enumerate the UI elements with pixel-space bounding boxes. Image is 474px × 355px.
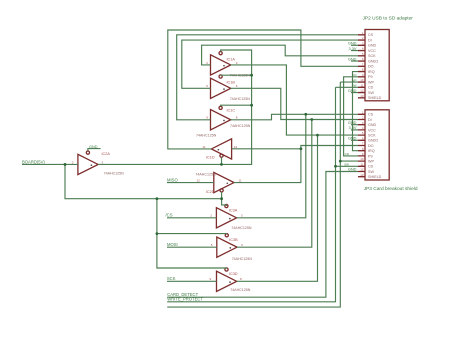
wire IC1A output to JP3 pin5 SCK (231, 65, 358, 135)
IC2D value label 74AHC125N (195, 172, 216, 176)
svg-text:IC2A: IC2A (102, 152, 111, 156)
svg-text:3: 3 (102, 160, 104, 164)
wire IC1B output to JP3 pin2 DI (231, 88, 358, 119)
svg-text:74AHC125N: 74AHC125N (196, 134, 217, 138)
svg-text:11: 11 (239, 179, 242, 183)
svg-text:/CS: /CS (166, 213, 173, 218)
IC3B value label 74AHC125N (232, 257, 253, 261)
wire net SCK: JP2 pin5 to IC1A input (202, 45, 358, 65)
IC1C value label 74AHC125N (230, 124, 251, 128)
svg-text:12: 12 (197, 179, 201, 183)
wire JP2 3.3V stub pin4 (351, 50, 358, 52)
net label GND JP3 pin3 (348, 120, 357, 125)
svg-text:SCK: SCK (368, 134, 376, 138)
wire JP2 pin11 stub (336, 86, 359, 88)
svg-text:GND2: GND2 (368, 139, 378, 143)
svg-text:IC1A: IC1A (227, 57, 236, 61)
net label MOSI (167, 242, 178, 247)
junction JP3 CS net (304, 113, 307, 116)
net label 3.3V JP3 pin4 (348, 125, 356, 130)
wire IC1C enable tie (221, 105, 252, 106)
svg-text:WP: WP (352, 78, 357, 82)
net label SW JP2 pin11 (352, 84, 357, 88)
net label 3.3V JP2 pin4 (348, 46, 356, 51)
wire JP2 pin10 stub (340, 81, 358, 83)
wire net WRITE_PROTECT to JP3 pin11 (167, 87, 358, 301)
svg-text:CD: CD (368, 86, 374, 90)
svg-text:DI: DI (368, 38, 372, 42)
wire IC1D enable tie (221, 157, 223, 164)
net label CARD_DETECT (167, 292, 198, 297)
IC1C gate label (227, 108, 236, 112)
IC1B value label 74AHC125N (230, 97, 251, 101)
svg-text:9: 9 (210, 277, 212, 281)
svg-text:WRITE_PROTECT: WRITE_PROTECT (167, 297, 203, 302)
wire IC3A output riser (237, 114, 306, 218)
IC1A value label 74AHC125N (230, 74, 251, 78)
wire JP2 GND stub pin3 (351, 44, 358, 46)
svg-text:8: 8 (236, 116, 238, 120)
net label CD JP3 pin9 (345, 152, 350, 156)
svg-text:GND: GND (89, 145, 98, 149)
wire IC1D input / IC2D output to JP3 pin7 DO (232, 146, 358, 183)
junction JP3 WP pin10 (339, 160, 342, 163)
JP3 pin numbers (360, 110, 364, 176)
wire net DI: JP2 pin2 to IC1B input (182, 40, 358, 88)
svg-text:2: 2 (206, 61, 208, 65)
IC1D value label 74AHC125N (196, 134, 217, 138)
svg-text:JP2 USB to SD adapter: JP2 USB to SD adapter (363, 16, 414, 22)
IC1D pin numbers 11,12 (203, 145, 238, 149)
IC3B gate label (229, 238, 238, 242)
net label /CS (166, 213, 173, 218)
svg-text:2: 2 (72, 160, 74, 164)
net label SCK (167, 276, 176, 281)
svg-text:GND: GND (348, 41, 357, 46)
wire JP3 3.3V stub pin4 (351, 129, 358, 131)
svg-text:CD: CD (368, 165, 374, 169)
IC2A gate label (102, 152, 111, 156)
svg-text:JP3 Card breakout shield: JP3 Card breakout shield (364, 186, 418, 192)
svg-text:BOARD(5V): BOARD(5V) (22, 159, 45, 164)
net label GND JP3 pin12 (348, 167, 357, 172)
svg-text:DO: DO (368, 144, 374, 148)
IC1B pin numbers 5,6 (206, 84, 237, 88)
buffer IC3A (216, 204, 236, 228)
wire IC3D output riser (237, 135, 318, 281)
connector JP2 body (365, 30, 389, 101)
IC1B gate label (227, 81, 236, 85)
IC2A pin numbers 2,3 (72, 160, 104, 164)
IC3D pin numbers 9,8 (210, 277, 243, 281)
svg-text:GND: GND (368, 123, 377, 127)
IC3A gate label (229, 209, 238, 213)
svg-text:IRQ: IRQ (368, 70, 375, 74)
junction JP3 DI net (310, 118, 313, 121)
IC3D gate label (229, 272, 238, 276)
buffer IC1D (left-pointing) (211, 139, 231, 159)
svg-text:74AHC125N: 74AHC125N (230, 288, 251, 292)
junction IC1B enable tie (250, 74, 253, 77)
IC1A pin numbers 2,3 (206, 61, 237, 65)
svg-text:6: 6 (236, 84, 238, 88)
svg-text:GND: GND (348, 167, 357, 172)
net label CD JP2 pin9 (352, 73, 357, 77)
junction IC2D enable tie (220, 197, 223, 200)
wire JP3 GND stub pin3 (351, 124, 358, 126)
JP3 pin names (368, 113, 382, 179)
wire IC2D enable tie (221, 192, 223, 199)
net label GND JP3 pin6 (348, 136, 357, 141)
IC3A pin numbers 2,3 (210, 214, 243, 218)
svg-text:VCC: VCC (368, 49, 376, 53)
svg-text:SW: SW (368, 170, 374, 174)
wire net MISO to IC2D input (167, 182, 214, 184)
connector JP2 pin stubs (358, 35, 365, 98)
junction on BOARD net at IC2A input (64, 163, 67, 166)
svg-text:74AHC125N: 74AHC125N (104, 172, 125, 176)
wire net SCK2 to IC3D input (167, 280, 217, 282)
wire IC3B output riser (237, 120, 312, 248)
IC1A gate label (227, 57, 236, 61)
svg-text:CS: CS (368, 33, 374, 37)
svg-text:IC1C: IC1C (227, 108, 236, 112)
JP3 title label (364, 186, 418, 192)
wire net BOARD input to IC2A (22, 163, 78, 165)
net label GND JP2 pin12 (348, 88, 357, 93)
svg-text:11: 11 (203, 145, 206, 149)
JP2 title label (363, 16, 414, 22)
svg-text:11: 11 (360, 162, 363, 166)
wire net CS: JP2 pin1 to IC1C input (177, 35, 358, 120)
IC3B pin numbers 5,6 (211, 243, 244, 247)
svg-text:IC1B: IC1B (227, 81, 236, 85)
connector JP3 body (365, 110, 389, 180)
svg-text:11: 11 (360, 83, 363, 87)
svg-text:74AHC125N: 74AHC125N (195, 172, 216, 176)
svg-text:MOSI: MOSI (167, 242, 178, 247)
wire BOARD branch to IC2/IC3 enable bus (65, 164, 222, 198)
svg-text:74AHC125N: 74AHC125N (232, 257, 253, 261)
svg-text:SHIELD: SHIELD (368, 96, 382, 100)
IC2D pin numbers 12,11 (197, 179, 242, 183)
svg-text:74AHC125N: 74AHC125N (230, 97, 251, 101)
svg-text:VCC: VCC (368, 128, 376, 132)
svg-text:13: 13 (360, 94, 364, 98)
wire JP2 pin8 to JP3 pin8 (353, 72, 359, 151)
svg-text:GND: GND (348, 136, 357, 141)
buffer IC1C (211, 106, 231, 130)
svg-text:8: 8 (240, 277, 242, 281)
wire JP3 GND stub pin6 (351, 139, 358, 141)
svg-text:10: 10 (360, 78, 364, 82)
wire IC3A enable jog (222, 199, 227, 206)
JP2 pin numbers (360, 31, 364, 98)
svg-text:CS: CS (368, 113, 374, 117)
svg-text:DI: DI (368, 118, 372, 122)
IC1D gate label (206, 155, 215, 159)
svg-text:3.3V: 3.3V (348, 125, 356, 130)
svg-text:5: 5 (211, 243, 213, 247)
svg-text:IC3B: IC3B (229, 238, 238, 242)
svg-text:WP: WP (368, 80, 374, 84)
svg-text:SHIELD: SHIELD (368, 175, 382, 179)
svg-text:GND: GND (348, 56, 357, 61)
buffer IC3D (217, 268, 237, 292)
svg-text:12: 12 (360, 168, 364, 172)
wire net CARD_DETECT to JP3 pin12 (167, 172, 358, 298)
svg-text:12: 12 (360, 89, 364, 93)
wire net DO: JP2 pin7 to IC1D output (168, 30, 358, 149)
svg-text:3: 3 (241, 214, 243, 218)
junction IC1C enable tie (250, 104, 253, 107)
svg-text:WP: WP (368, 160, 374, 164)
svg-text:IC1D: IC1D (206, 155, 215, 159)
svg-text:2: 2 (210, 214, 212, 218)
wire JP2 GND stub pin12 (351, 92, 358, 94)
junction JP3 SCK net (316, 134, 319, 137)
JP2 pin names (368, 33, 382, 100)
net label GND JP2 pin6 (348, 56, 357, 61)
connector JP3 pin stubs (358, 114, 365, 176)
svg-text:IC3D: IC3D (229, 272, 238, 276)
svg-text:SCK: SCK (368, 54, 376, 58)
wire IC1C output to JP3 pin1 CS (231, 114, 358, 120)
svg-text:IRQ: IRQ (368, 149, 375, 153)
svg-text:74AHC125N: 74AHC125N (230, 124, 251, 128)
net label SW JP3 pin11 (344, 163, 349, 167)
buffer IC1A (211, 52, 231, 76)
IC2A enable GND tie (88, 145, 101, 151)
svg-text:GND2: GND2 (368, 59, 378, 63)
wire net MOSI to IC3B input (167, 246, 217, 248)
junction IC1D enable tie (220, 163, 223, 166)
junction enable bus node A (156, 197, 159, 200)
svg-text:SCK: SCK (167, 276, 176, 281)
svg-text:SW: SW (352, 84, 357, 88)
buffer IC1B (211, 75, 231, 99)
wire IC3D enable branch (157, 234, 227, 268)
IC1C pin numbers 9,8 (206, 116, 237, 120)
junction DO net at IC1D input (300, 147, 303, 150)
wire JP2 pin9 to JP3 pin9 (344, 77, 358, 156)
wire IC2A output enable bus to IC1 gates (98, 50, 252, 164)
svg-text:DO: DO (368, 65, 374, 69)
svg-text:SW: SW (368, 91, 374, 95)
wire IC3B enable branch (157, 199, 227, 234)
svg-text:9: 9 (206, 116, 208, 120)
wire JP2 GND stub pin6 (351, 60, 358, 62)
svg-text:3.3V: 3.3V (348, 46, 356, 51)
svg-text:13: 13 (360, 173, 364, 177)
svg-text:10: 10 (360, 157, 364, 161)
net label WP JP2 pin10 (352, 78, 357, 82)
svg-text:GND: GND (348, 88, 357, 93)
svg-text:6: 6 (241, 243, 243, 247)
junction enable bus node B (156, 232, 159, 235)
buffer IC3B (217, 234, 237, 258)
svg-text:3: 3 (236, 61, 238, 65)
IC2D gate label (206, 190, 215, 194)
wire net shield row to JP3 pin10 (167, 82, 358, 307)
wire net /CS to IC3A input (167, 217, 216, 219)
svg-text:P9: P9 (368, 75, 373, 79)
svg-text:74AHC125N: 74AHC125N (231, 226, 252, 230)
svg-text:IC2D: IC2D (206, 190, 215, 194)
buffer IC2A (78, 151, 98, 175)
net label MISO (167, 177, 178, 182)
wire IC1B enable tie (221, 74, 252, 76)
IC3A value label 74AHC125N (231, 226, 252, 230)
buffer IC2D (214, 172, 234, 192)
svg-text:GND: GND (368, 44, 377, 48)
net label GND JP2 pin3 (348, 41, 357, 46)
net label BOARD(5V) (22, 159, 45, 164)
IC3D value label 74AHC125N (230, 288, 251, 292)
svg-text:5: 5 (206, 84, 208, 88)
IC2A value label 74AHC125N (104, 172, 125, 176)
svg-text:MISO: MISO (167, 177, 178, 182)
net label WRITE_PROTECT (167, 297, 203, 302)
svg-text:P9: P9 (368, 154, 373, 158)
junction JP3 CD pin11 (334, 165, 337, 168)
svg-text:IC3A: IC3A (229, 209, 238, 213)
